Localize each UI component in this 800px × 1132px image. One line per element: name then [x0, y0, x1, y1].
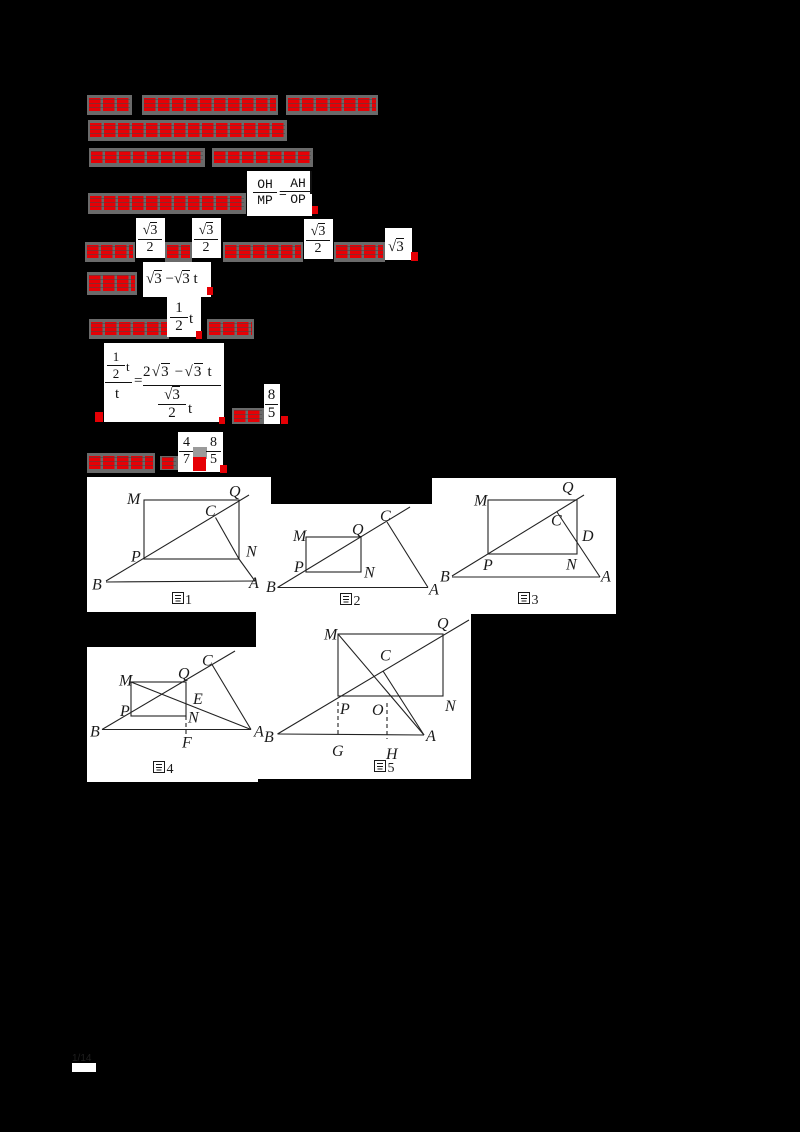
svg-text:Q: Q	[178, 666, 190, 683]
svg-text:N: N	[565, 557, 578, 574]
svg-text:G: G	[332, 743, 344, 760]
sqrt3 - sqrt3 t box	[143, 262, 211, 297]
svg-text:C: C	[551, 513, 562, 530]
svg-text:5: 5	[388, 761, 395, 776]
svg-text:M: M	[473, 493, 489, 510]
svg-text:Q: Q	[352, 522, 364, 539]
svg-text:B: B	[264, 729, 274, 746]
fig2 rectangle	[306, 537, 361, 572]
fig3 line B to beyond Q	[452, 495, 584, 576]
red text line 1 run 1	[87, 95, 132, 115]
red comma after sqrt3	[411, 252, 418, 261]
fig4 caption	[154, 762, 174, 778]
card 2 white	[256, 504, 432, 619]
fig5 rectangle	[338, 634, 443, 696]
sqrt3/2 box 1	[136, 218, 165, 258]
svg-text:3: 3	[532, 593, 539, 608]
svg-text:M: M	[323, 627, 339, 644]
red comma after 1/2t	[196, 331, 202, 339]
svg-text:M: M	[126, 491, 142, 508]
line 5: red run 2	[165, 242, 192, 262]
big fraction box	[104, 343, 224, 422]
fig5 caption	[375, 761, 395, 777]
svg-text:N: N	[444, 698, 457, 715]
red text line 3 run 1	[89, 148, 205, 167]
fig2 line B to A	[278, 587, 429, 589]
line 7 red run 1	[89, 319, 169, 339]
sqrt3/2 box 2	[192, 218, 221, 258]
red text line 2	[88, 120, 287, 141]
svg-text:B: B	[266, 579, 276, 596]
svg-text:Q: Q	[229, 484, 241, 501]
red period after 4/7 8/5	[220, 465, 227, 473]
red huo char	[193, 457, 206, 471]
fig4 line B to beyond Q	[102, 651, 235, 730]
svg-text:B: B	[90, 724, 100, 741]
4/7 8/5 box	[178, 432, 223, 472]
formula box OH/MP=AH/OP	[247, 171, 312, 216]
svg-text:C: C	[380, 508, 391, 525]
svg-text:N: N	[187, 710, 200, 727]
fig4 line C to A	[212, 665, 251, 730]
red text line 1 run 2	[142, 95, 278, 115]
fig5 dashed P to G	[337, 702, 339, 737]
fig2 line B to beyond Q	[278, 507, 411, 588]
LHS	[107, 349, 125, 382]
svg-text:Q: Q	[562, 480, 574, 497]
red therefore before big box	[95, 412, 103, 422]
red run: t=	[232, 408, 264, 424]
sqrt3/2 box 3	[304, 219, 333, 259]
red text line 4	[88, 193, 246, 214]
svg-text:2: 2	[354, 594, 361, 609]
red comma after big box	[219, 417, 225, 424]
RHS	[143, 364, 213, 381]
svg-text:D: D	[581, 528, 594, 545]
fig5 line C to A	[383, 671, 424, 735]
svg-text:M: M	[292, 528, 308, 545]
fig4 line M to A	[131, 682, 251, 730]
fig4 line B to A	[102, 729, 251, 731]
svg-text:C: C	[205, 503, 216, 520]
svg-text:B: B	[440, 569, 450, 586]
fig1 line C to N	[216, 518, 240, 560]
line 6 red run	[87, 272, 137, 295]
last line red run 1	[87, 453, 155, 473]
svg-text:1: 1	[185, 593, 192, 608]
fig1 caption	[173, 593, 193, 609]
footer white box	[72, 1063, 96, 1072]
svg-text:M: M	[118, 673, 134, 690]
equals	[134, 373, 142, 390]
red text line 3 run 2	[212, 148, 313, 167]
svg-text:E: E	[192, 691, 203, 708]
svg-text:N: N	[363, 565, 376, 582]
fig4 rectangle	[131, 682, 186, 716]
svg-text:P: P	[339, 701, 350, 718]
sqrt3 box	[385, 228, 412, 260]
svg-text:A: A	[600, 569, 611, 586]
svg-text:N: N	[245, 544, 258, 561]
fig3 line B to A	[452, 576, 600, 578]
svg-text:B: B	[92, 577, 102, 594]
fig1 rectangle MQNP	[144, 500, 239, 559]
fig5 dashed O to H	[386, 703, 388, 739]
footer page number faint	[72, 1053, 98, 1063]
card 5 white	[256, 612, 471, 779]
last line red run t=	[160, 456, 178, 470]
fig3 line C to A through D	[557, 512, 600, 577]
svg-text:C: C	[380, 648, 391, 665]
1/2 t box	[167, 293, 201, 337]
fig5 line B to beyond Q	[278, 620, 470, 734]
line 5: red run 3	[223, 242, 303, 262]
svg-text:C: C	[202, 653, 213, 670]
svg-text:A: A	[253, 724, 264, 741]
card 1 white	[87, 477, 271, 612]
red comma after OH box	[312, 206, 318, 214]
8/5 box	[264, 384, 280, 424]
fig3 caption	[519, 593, 539, 609]
fig5 line B to A	[278, 734, 425, 735]
svg-text:F: F	[181, 735, 192, 752]
line 5: red run 1	[85, 242, 135, 262]
fig2 line C to A	[387, 522, 428, 588]
svg-text:A: A	[248, 575, 259, 592]
card 4 white	[87, 647, 258, 782]
line 7 red run 2	[207, 319, 254, 339]
svg-text:P: P	[130, 549, 141, 566]
svg-text:A: A	[425, 728, 436, 745]
svg-text:P: P	[293, 559, 304, 576]
fig5 line M to A	[338, 634, 424, 735]
fig1 line N to A	[239, 559, 255, 581]
svg-text:P: P	[119, 703, 130, 720]
fig2 caption	[341, 594, 361, 610]
fig1 line B to A	[106, 581, 255, 582]
red comma in sqrt box	[207, 287, 213, 295]
svg-text:P: P	[482, 557, 493, 574]
svg-text:O: O	[372, 702, 384, 719]
line 5: red run 4	[334, 242, 385, 262]
svg-text:Q: Q	[437, 615, 449, 632]
red text line 1 run 3	[286, 95, 378, 115]
red period after 8/5	[281, 416, 288, 424]
svg-text:4: 4	[167, 762, 174, 777]
fig4 dashed N to F	[185, 716, 187, 737]
svg-text:A: A	[428, 582, 439, 599]
fig1 line B to beyond Q	[106, 495, 249, 581]
fig3 rectangle	[488, 500, 577, 554]
card 3 white	[432, 478, 616, 614]
